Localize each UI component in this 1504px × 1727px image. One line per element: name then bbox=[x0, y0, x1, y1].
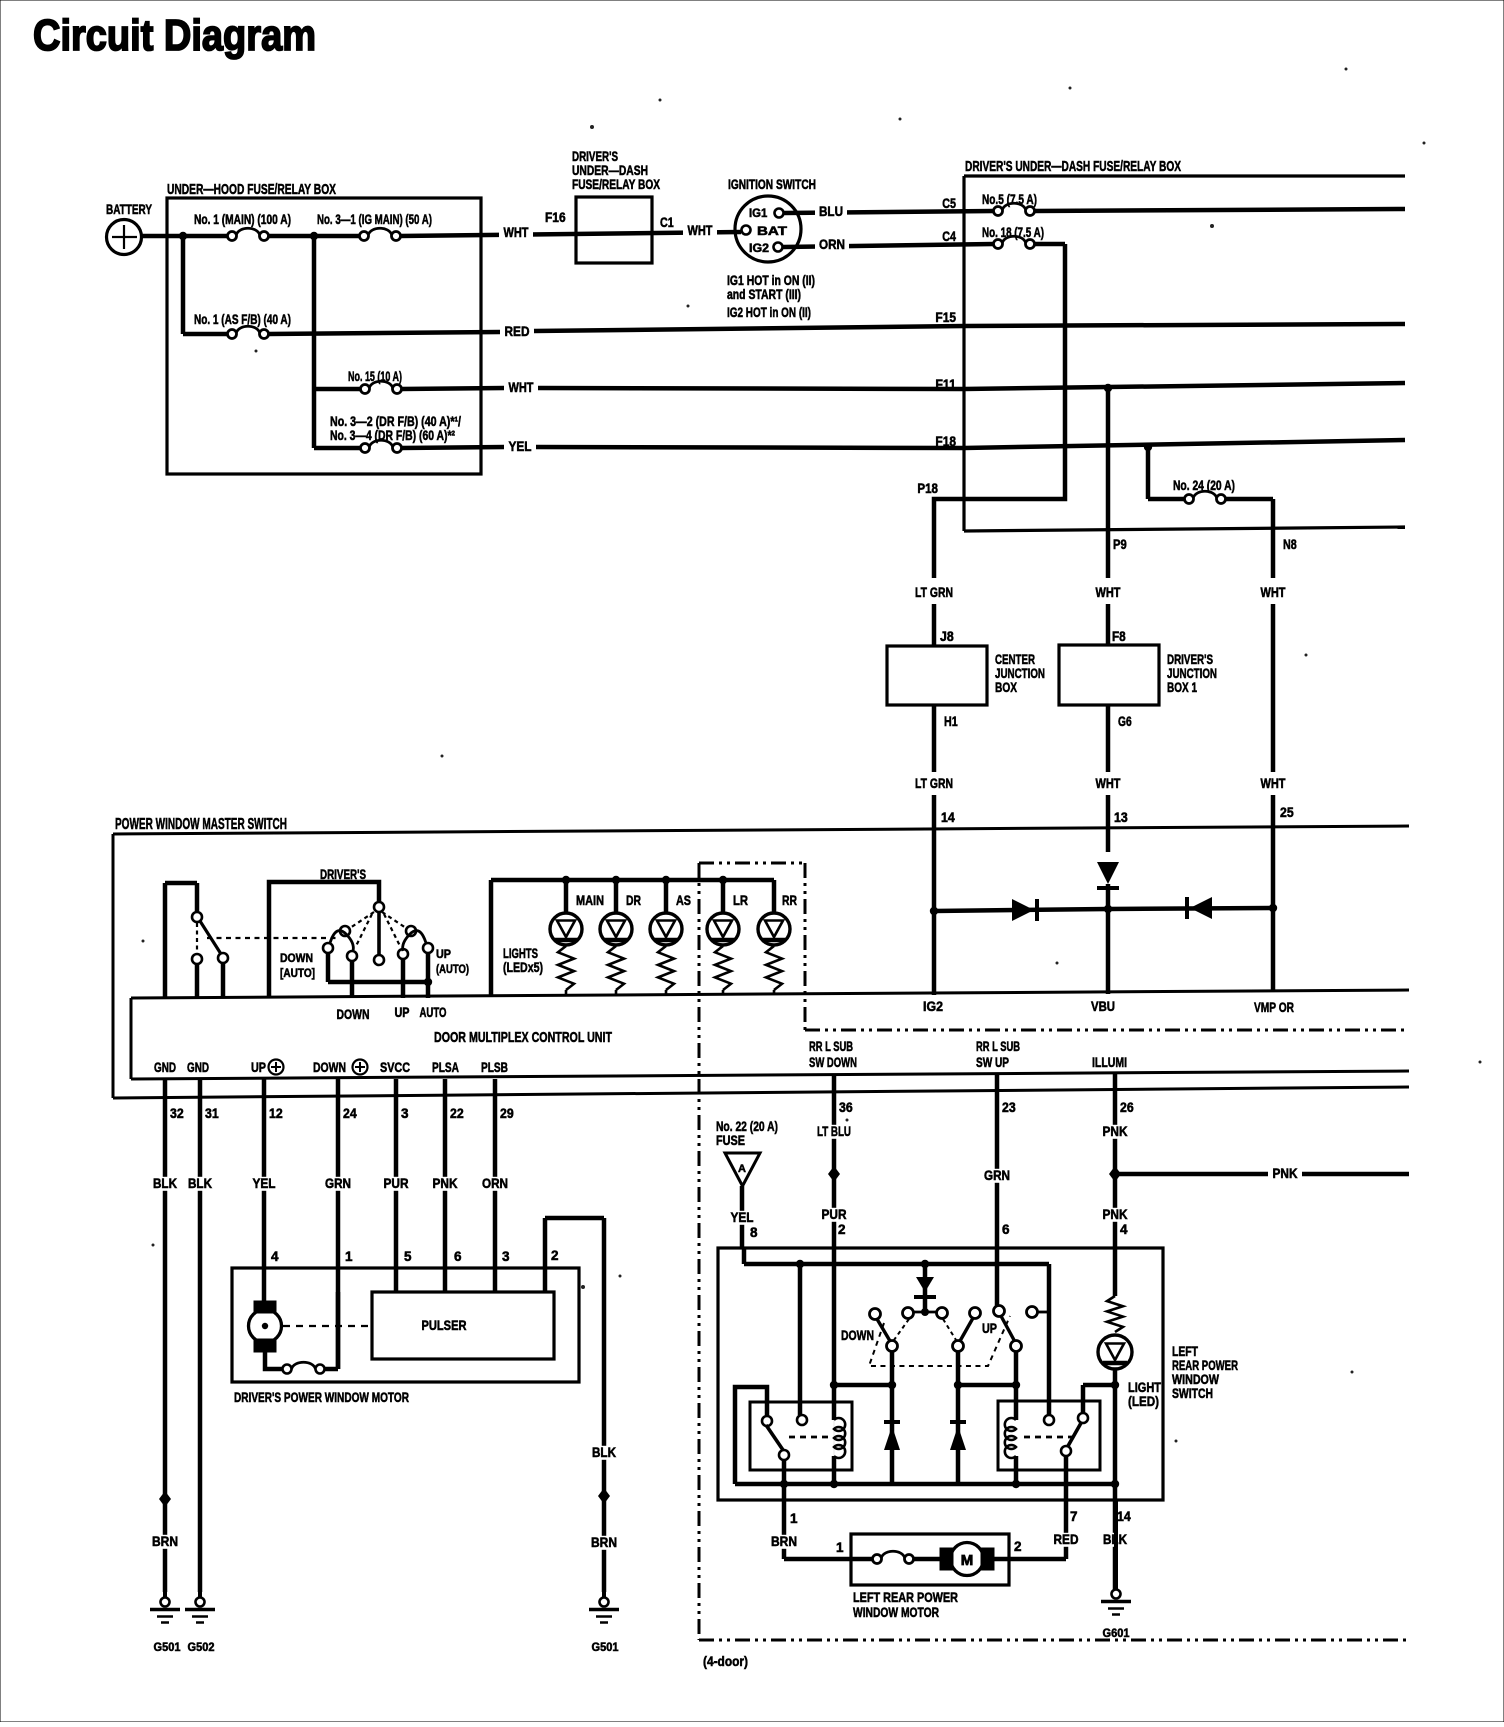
svg-text:(LEDx5): (LEDx5) bbox=[503, 960, 543, 975]
svg-text:LR: LR bbox=[733, 893, 748, 908]
svg-text:23: 23 bbox=[1002, 1100, 1016, 1115]
svg-text:RR L SUB: RR L SUB bbox=[809, 1039, 853, 1054]
svg-text:3: 3 bbox=[401, 1106, 409, 1121]
svg-text:WHT: WHT bbox=[509, 380, 535, 395]
svg-text:24: 24 bbox=[343, 1106, 357, 1121]
svg-text:LT GRN: LT GRN bbox=[915, 585, 953, 600]
svg-text:P18: P18 bbox=[917, 481, 938, 496]
svg-text:C4: C4 bbox=[942, 229, 956, 244]
svg-text:LIGHT: LIGHT bbox=[1128, 1380, 1162, 1395]
svg-text:LIGHTS: LIGHTS bbox=[503, 946, 538, 961]
svg-text:YEL: YEL bbox=[509, 439, 532, 454]
svg-text:PNK: PNK bbox=[1273, 1166, 1298, 1181]
svg-text:J8: J8 bbox=[940, 629, 954, 644]
svg-text:F15: F15 bbox=[935, 310, 956, 325]
svg-text:WHT: WHT bbox=[504, 225, 530, 240]
svg-text:YEL: YEL bbox=[253, 1176, 276, 1191]
svg-text:REAR POWER: REAR POWER bbox=[1172, 1358, 1238, 1373]
svg-text:DOWN: DOWN bbox=[313, 1060, 346, 1075]
svg-text:VBU: VBU bbox=[1091, 999, 1115, 1014]
svg-text:14: 14 bbox=[941, 810, 955, 825]
svg-text:G502: G502 bbox=[188, 1640, 215, 1654]
svg-text:DOWN: DOWN bbox=[337, 1007, 370, 1022]
svg-text:WHT: WHT bbox=[1096, 776, 1122, 791]
svg-text:PNK: PNK bbox=[1103, 1124, 1128, 1139]
svg-text:BRN: BRN bbox=[152, 1534, 178, 1549]
svg-text:VMP OR: VMP OR bbox=[1254, 1000, 1294, 1015]
svg-text:M: M bbox=[961, 1552, 974, 1569]
svg-text:N8: N8 bbox=[1283, 537, 1297, 552]
svg-text:BRN: BRN bbox=[591, 1535, 617, 1550]
svg-text:F16: F16 bbox=[545, 210, 566, 225]
svg-text:No. 3—4 (DR F/B) (60 A)*²: No. 3—4 (DR F/B) (60 A)*² bbox=[330, 428, 455, 443]
svg-text:CENTER: CENTER bbox=[995, 652, 1035, 667]
svg-text:WHT: WHT bbox=[1261, 776, 1287, 791]
svg-text:BOX 1: BOX 1 bbox=[1167, 680, 1197, 695]
svg-text:UNDER—HOOD FUSE/RELAY BOX: UNDER—HOOD FUSE/RELAY BOX bbox=[167, 181, 336, 198]
svg-text:LEFT: LEFT bbox=[1172, 1344, 1199, 1359]
svg-text:1: 1 bbox=[790, 1511, 798, 1526]
svg-text:G501: G501 bbox=[154, 1640, 181, 1654]
svg-text:RR: RR bbox=[782, 893, 797, 908]
svg-text:H1: H1 bbox=[944, 714, 958, 729]
svg-text:No. 18 (7.5 A): No. 18 (7.5 A) bbox=[982, 225, 1044, 240]
svg-text:26: 26 bbox=[1120, 1100, 1134, 1115]
svg-text:GND: GND bbox=[154, 1060, 176, 1075]
svg-text:RR L SUB: RR L SUB bbox=[976, 1039, 1020, 1054]
svg-text:P9: P9 bbox=[1113, 537, 1127, 552]
svg-text:BRN: BRN bbox=[771, 1534, 797, 1549]
svg-text:WINDOW MOTOR: WINDOW MOTOR bbox=[853, 1605, 939, 1620]
svg-text:G601: G601 bbox=[1103, 1626, 1130, 1640]
svg-text:C5: C5 bbox=[942, 196, 956, 211]
svg-text:IG2: IG2 bbox=[749, 241, 769, 255]
svg-text:GRN: GRN bbox=[984, 1168, 1010, 1183]
svg-text:22: 22 bbox=[450, 1106, 464, 1121]
svg-text:DRIVER'S: DRIVER'S bbox=[572, 149, 618, 164]
svg-text:32: 32 bbox=[170, 1106, 184, 1121]
svg-text:ORN: ORN bbox=[482, 1176, 508, 1191]
svg-text:ORN: ORN bbox=[819, 237, 845, 252]
svg-text:IG2 HOT in ON (II): IG2 HOT in ON (II) bbox=[727, 305, 811, 320]
svg-text:No. 22 (20 A): No. 22 (20 A) bbox=[716, 1119, 778, 1134]
svg-text:and START (III): and START (III) bbox=[727, 287, 801, 302]
svg-text:F18: F18 bbox=[935, 434, 956, 449]
svg-text:SVCC: SVCC bbox=[380, 1060, 410, 1075]
svg-text:IG1 HOT in ON (II): IG1 HOT in ON (II) bbox=[727, 273, 815, 288]
svg-text:UP: UP bbox=[982, 1321, 997, 1336]
svg-text:WHT: WHT bbox=[1261, 585, 1287, 600]
svg-text:DRIVER'S UNDER—DASH FUSE/RELAY: DRIVER'S UNDER—DASH FUSE/RELAY BOX bbox=[965, 158, 1181, 175]
svg-text:1: 1 bbox=[345, 1249, 353, 1264]
svg-text:1: 1 bbox=[836, 1540, 844, 1555]
svg-text:GND: GND bbox=[187, 1060, 209, 1075]
svg-text:LT GRN: LT GRN bbox=[915, 776, 953, 791]
svg-text:FUSE: FUSE bbox=[716, 1133, 745, 1148]
svg-text:14: 14 bbox=[1117, 1509, 1131, 1524]
svg-text:RED: RED bbox=[505, 324, 530, 339]
svg-text:POWER WINDOW MASTER SWITCH: POWER WINDOW MASTER SWITCH bbox=[115, 816, 287, 833]
svg-text:DOOR MULTIPLEX CONTROL UNIT: DOOR MULTIPLEX CONTROL UNIT bbox=[434, 1029, 612, 1046]
svg-text:JUNCTION: JUNCTION bbox=[1167, 666, 1217, 681]
svg-text:No. 3—1 (IG MAIN) (50 A): No. 3—1 (IG MAIN) (50 A) bbox=[317, 212, 432, 227]
svg-text:13: 13 bbox=[1114, 810, 1128, 825]
svg-text:6: 6 bbox=[1002, 1222, 1010, 1237]
svg-text:PNK: PNK bbox=[433, 1176, 458, 1191]
svg-text:IGNITION SWITCH: IGNITION SWITCH bbox=[728, 177, 816, 192]
svg-text:8: 8 bbox=[750, 1225, 758, 1240]
svg-text:3: 3 bbox=[502, 1249, 510, 1264]
svg-text:5: 5 bbox=[404, 1249, 412, 1264]
svg-text:6: 6 bbox=[454, 1249, 462, 1264]
svg-text:WINDOW: WINDOW bbox=[1172, 1372, 1219, 1387]
svg-text:(LED): (LED) bbox=[1128, 1394, 1159, 1409]
svg-text:PUR: PUR bbox=[822, 1207, 847, 1222]
svg-text:2: 2 bbox=[1014, 1539, 1022, 1554]
svg-text:(4-door): (4-door) bbox=[703, 1654, 748, 1669]
svg-text:BAT: BAT bbox=[757, 224, 788, 238]
svg-text:[AUTO]: [AUTO] bbox=[280, 966, 315, 980]
svg-text:F8: F8 bbox=[1112, 629, 1126, 644]
svg-text:GRN: GRN bbox=[325, 1176, 351, 1191]
svg-text:BLK: BLK bbox=[153, 1176, 177, 1191]
svg-text:31: 31 bbox=[205, 1106, 219, 1121]
svg-text:PLSA: PLSA bbox=[432, 1060, 459, 1075]
svg-text:29: 29 bbox=[500, 1106, 514, 1121]
svg-text:PUR: PUR bbox=[384, 1176, 409, 1191]
svg-text:PULSER: PULSER bbox=[422, 1318, 467, 1333]
svg-text:12: 12 bbox=[269, 1106, 283, 1121]
svg-text:BLU: BLU bbox=[819, 204, 843, 219]
svg-text:A: A bbox=[738, 1163, 746, 1175]
svg-text:BLK: BLK bbox=[188, 1176, 212, 1191]
svg-text:(AUTO): (AUTO) bbox=[436, 962, 469, 976]
svg-text:WHT: WHT bbox=[1096, 585, 1122, 600]
svg-text:DOWN: DOWN bbox=[841, 1328, 874, 1343]
svg-text:JUNCTION: JUNCTION bbox=[995, 666, 1045, 681]
svg-text:UP: UP bbox=[395, 1005, 410, 1020]
svg-text:DRIVER'S: DRIVER'S bbox=[1167, 652, 1213, 667]
svg-text:LT BLU: LT BLU bbox=[817, 1124, 851, 1139]
svg-text:G6: G6 bbox=[1118, 714, 1132, 729]
svg-text:SW DOWN: SW DOWN bbox=[809, 1055, 857, 1070]
svg-text:UNDER—DASH: UNDER—DASH bbox=[572, 163, 648, 178]
svg-text:PLSB: PLSB bbox=[481, 1060, 508, 1075]
svg-text:MAIN: MAIN bbox=[576, 893, 604, 908]
svg-text:IG1: IG1 bbox=[749, 206, 768, 220]
svg-text:RED: RED bbox=[1054, 1532, 1079, 1547]
svg-text:WHT: WHT bbox=[688, 223, 714, 238]
svg-text:YEL: YEL bbox=[731, 1210, 754, 1225]
svg-text:BLK: BLK bbox=[592, 1445, 616, 1460]
svg-text:G501: G501 bbox=[592, 1640, 619, 1654]
svg-text:LEFT REAR POWER: LEFT REAR POWER bbox=[853, 1590, 958, 1605]
svg-text:SW UP: SW UP bbox=[976, 1055, 1009, 1070]
svg-text:UP: UP bbox=[436, 947, 451, 961]
svg-text:AUTO: AUTO bbox=[420, 1005, 447, 1020]
svg-text:DRIVER'S POWER WINDOW MOTOR: DRIVER'S POWER WINDOW MOTOR bbox=[234, 1390, 409, 1405]
svg-text:SWITCH: SWITCH bbox=[1172, 1386, 1213, 1401]
svg-text:No. 1 (AS F/B) (40 A): No. 1 (AS F/B) (40 A) bbox=[194, 312, 291, 327]
svg-text:No. 1 (MAIN) (100 A): No. 1 (MAIN) (100 A) bbox=[194, 212, 291, 227]
svg-text:2: 2 bbox=[551, 1248, 559, 1263]
svg-text:F11: F11 bbox=[935, 377, 956, 392]
svg-text:4: 4 bbox=[271, 1249, 279, 1264]
svg-text:7: 7 bbox=[1070, 1509, 1078, 1524]
svg-text:AS: AS bbox=[676, 893, 691, 908]
svg-text:UP: UP bbox=[251, 1060, 266, 1075]
svg-text:No. 3—2 (DR F/B) (40 A)*¹/: No. 3—2 (DR F/B) (40 A)*¹/ bbox=[330, 414, 461, 429]
svg-text:25: 25 bbox=[1280, 805, 1294, 820]
svg-text:ILLUMI: ILLUMI bbox=[1092, 1055, 1127, 1070]
svg-text:Circuit Diagram: Circuit Diagram bbox=[33, 11, 316, 60]
svg-text:DOWN: DOWN bbox=[280, 951, 313, 965]
svg-text:PNK: PNK bbox=[1103, 1207, 1128, 1222]
svg-text:2: 2 bbox=[838, 1222, 846, 1237]
svg-text:BATTERY: BATTERY bbox=[106, 202, 152, 217]
svg-text:DR: DR bbox=[626, 893, 641, 908]
svg-text:36: 36 bbox=[839, 1100, 853, 1115]
svg-text:FUSE/RELAY BOX: FUSE/RELAY BOX bbox=[572, 177, 660, 192]
svg-text:C1: C1 bbox=[660, 215, 674, 230]
svg-text:IG2: IG2 bbox=[923, 999, 943, 1014]
svg-text:BOX: BOX bbox=[995, 680, 1017, 695]
svg-text:4: 4 bbox=[1120, 1222, 1128, 1237]
